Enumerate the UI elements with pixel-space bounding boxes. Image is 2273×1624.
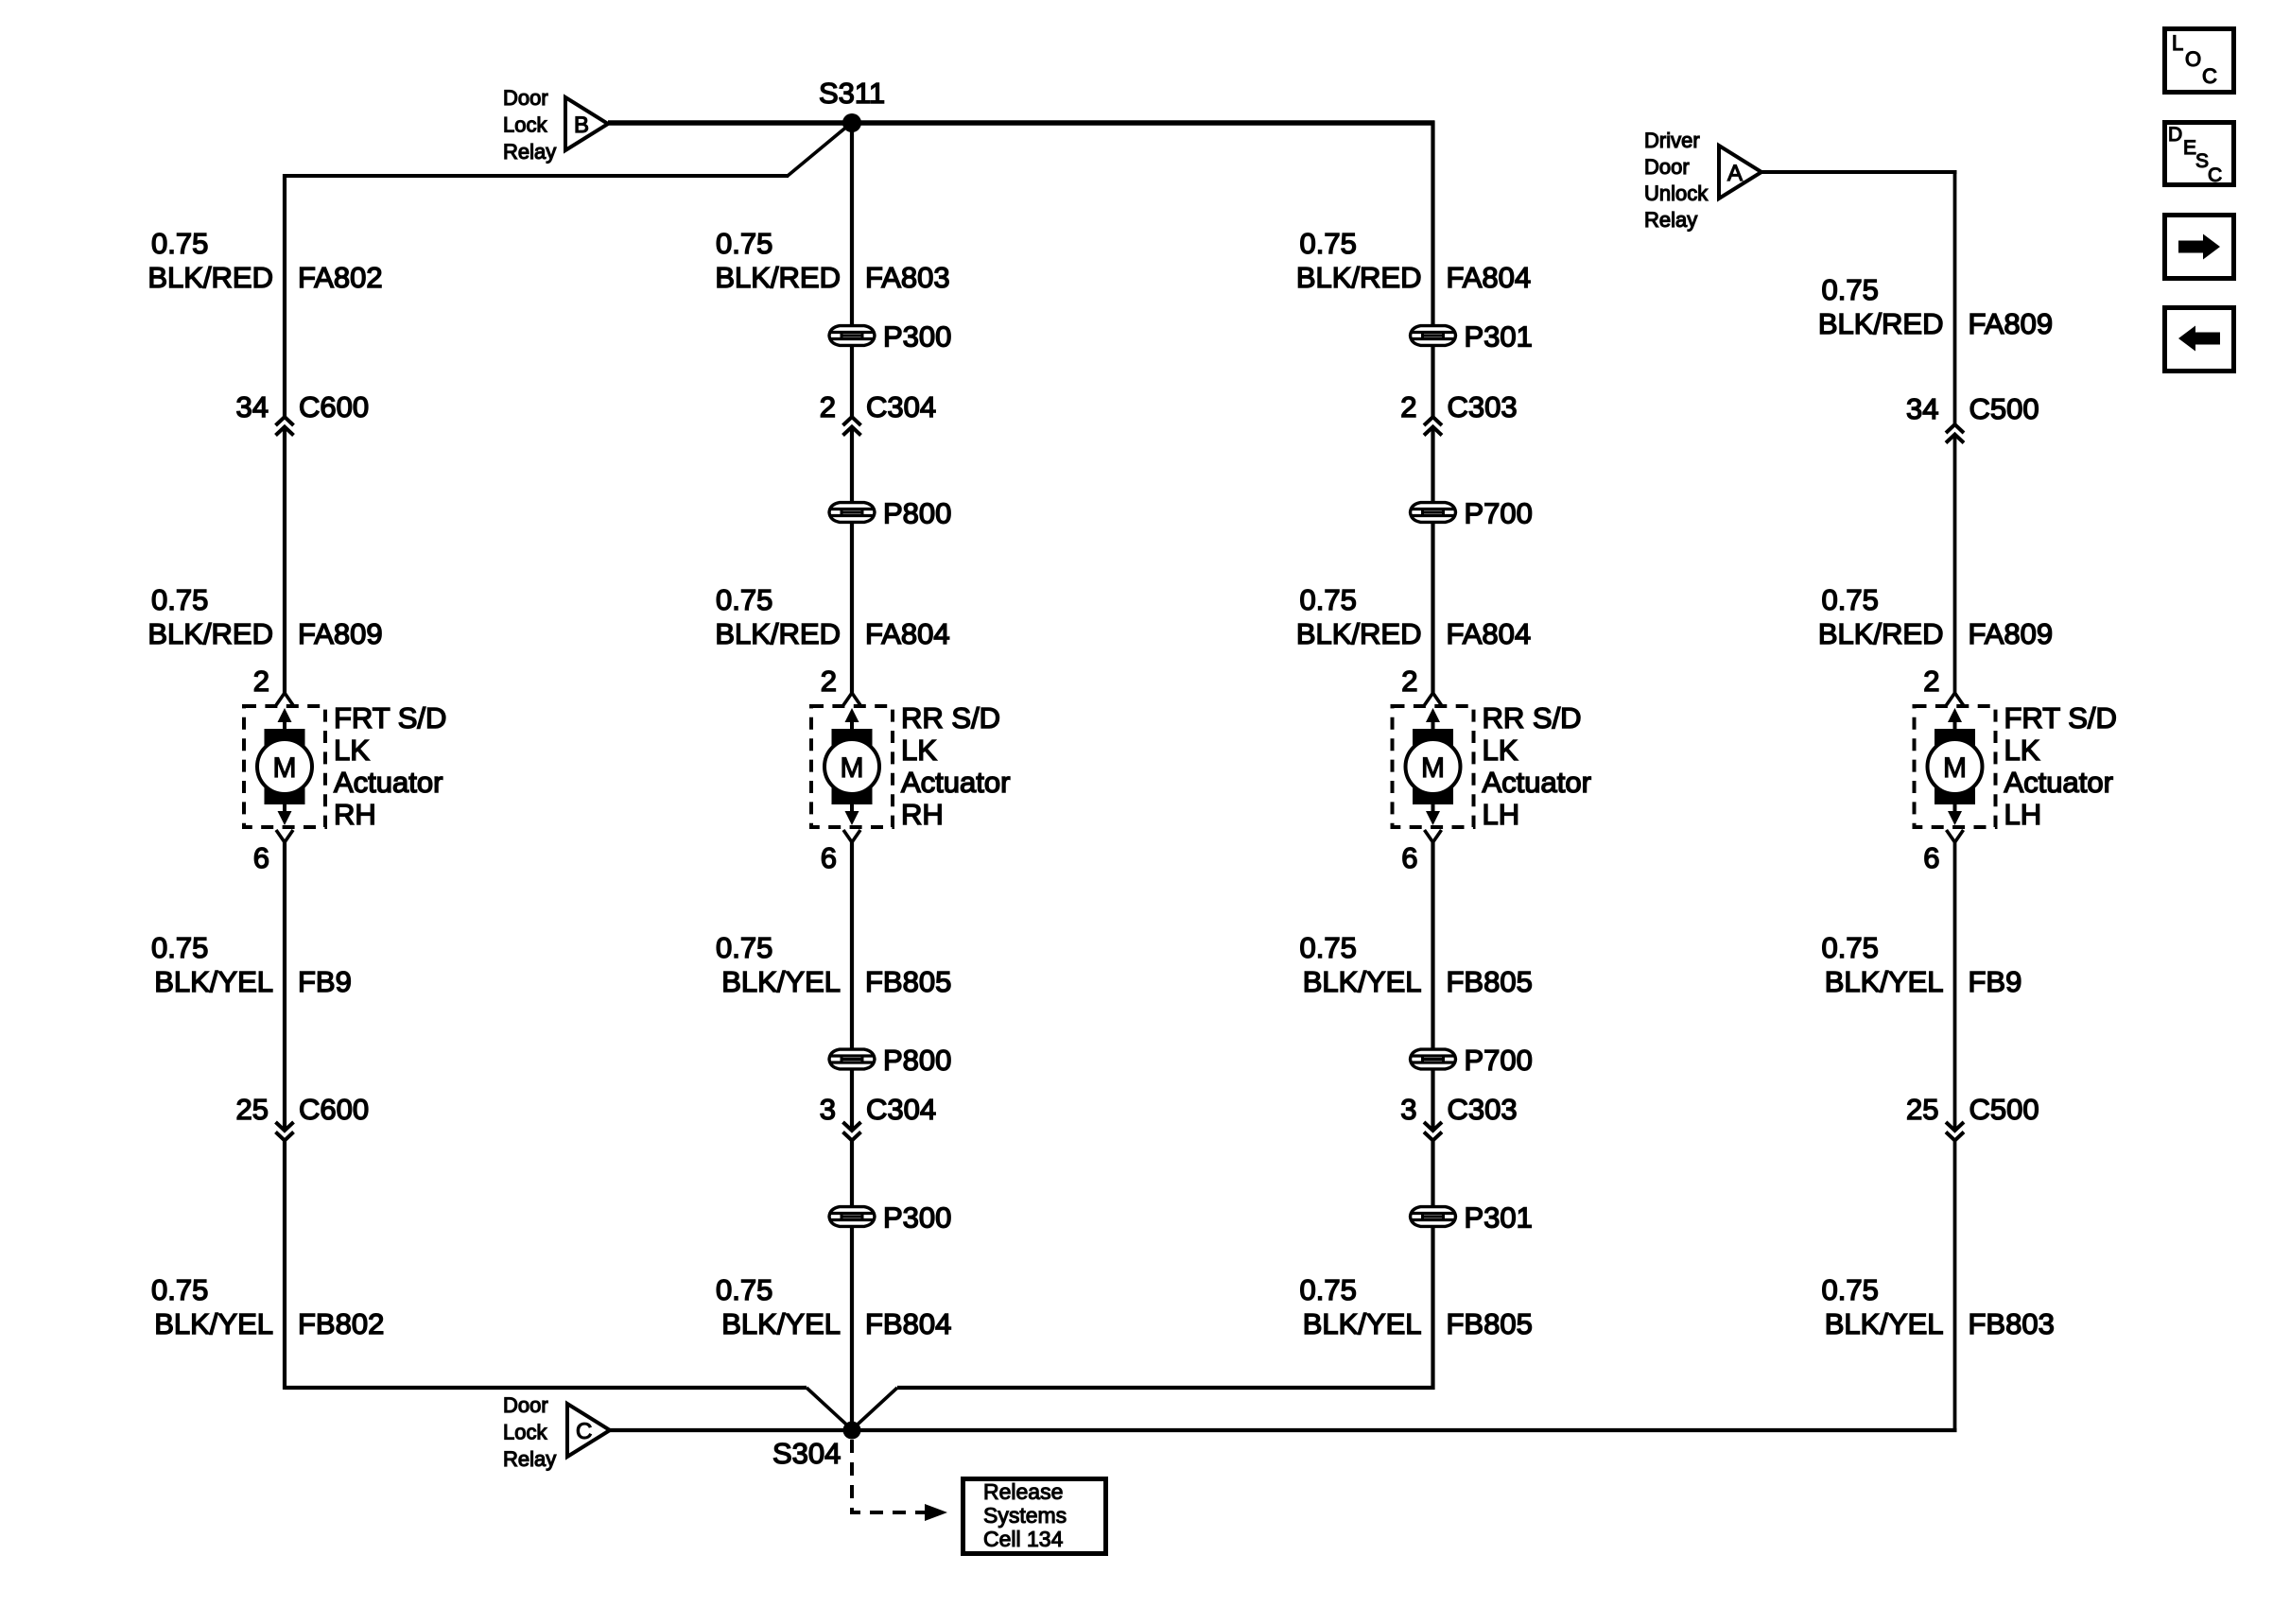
motor M2 RR S/D LK Actuator RH <box>811 693 893 842</box>
svg-text:Relay: Relay <box>1644 208 1697 232</box>
svg-text:2: 2 <box>253 665 269 698</box>
connector break C304 bottom (col2) <box>843 1122 861 1141</box>
svg-text:0.75: 0.75 <box>1822 273 1879 306</box>
wire FA804 column 3 mid <box>1431 523 1434 693</box>
svg-text:FB805: FB805 <box>1447 965 1533 998</box>
svg-text:BLK/YEL: BLK/YEL <box>1825 1307 1944 1340</box>
wire FA804 column 3 upper <box>1431 121 1434 325</box>
wire FB803 column 4 lower <box>1953 1141 1957 1432</box>
wire: from A to column 4 corner <box>1761 170 1957 174</box>
svg-text:FA809: FA809 <box>1969 617 2054 650</box>
svg-text:0.75: 0.75 <box>716 227 772 260</box>
wire segment col2 <box>850 428 854 502</box>
connector break C303 bottom (col3) <box>1424 1122 1442 1141</box>
svg-text:RR S/D: RR S/D <box>1483 701 1582 734</box>
connector break C303 top (col3) <box>1424 417 1442 436</box>
legend box left-arrow <box>2165 308 2234 371</box>
wire FB9 column 4 <box>1953 842 1957 1131</box>
svg-text:L: L <box>2172 31 2183 55</box>
motor M1 FRT S/D LK Actuator RH <box>244 693 325 842</box>
svg-text:3: 3 <box>1400 1093 1416 1126</box>
svg-text:FA802: FA802 <box>298 261 383 294</box>
svg-text:Release: Release <box>983 1479 1063 1504</box>
svg-text:BLK/YEL: BLK/YEL <box>1825 965 1944 998</box>
legend box right-arrow <box>2165 216 2234 279</box>
svg-text:LH: LH <box>1483 798 1520 831</box>
node S304 junction dot <box>843 1422 861 1440</box>
legend box DESC <box>2165 123 2234 185</box>
svg-text:FB9: FB9 <box>1969 965 2022 998</box>
svg-text:P300: P300 <box>883 320 951 354</box>
svg-text:C304: C304 <box>866 390 936 423</box>
inline connector P301 <box>1411 326 1456 346</box>
svg-text:2: 2 <box>1400 390 1416 423</box>
svg-text:0.75: 0.75 <box>151 583 208 616</box>
svg-text:O: O <box>2185 47 2201 71</box>
wire: top bus from B to column 3 corner <box>608 120 1435 126</box>
svg-text:25: 25 <box>236 1093 269 1126</box>
svg-text:BLK/YEL: BLK/YEL <box>154 1307 273 1340</box>
svg-text:C: C <box>576 1419 592 1444</box>
svg-text:Door: Door <box>503 86 548 110</box>
svg-text:Systems: Systems <box>983 1503 1067 1528</box>
svg-text:0.75: 0.75 <box>1300 931 1357 964</box>
svg-text:Lock: Lock <box>503 113 547 137</box>
svg-text:34: 34 <box>236 390 269 423</box>
svg-text:BLK/RED: BLK/RED <box>147 617 273 650</box>
wire: bottom line C to column 4 <box>610 1428 1957 1432</box>
svg-text:E: E <box>2183 137 2196 159</box>
svg-text:Lock: Lock <box>503 1421 547 1444</box>
wire bottom bus right (col3 to S304) <box>897 1386 1435 1390</box>
wire FA809 column 4 mid <box>1953 436 1957 693</box>
svg-text:C600: C600 <box>299 1093 369 1126</box>
svg-text:6: 6 <box>253 841 269 874</box>
svg-text:FRT S/D: FRT S/D <box>334 701 446 734</box>
svg-text:BLK/YEL: BLK/YEL <box>721 1307 841 1340</box>
svg-text:LK: LK <box>2004 734 2040 767</box>
svg-text:FA804: FA804 <box>865 617 950 650</box>
svg-text:BLK/YEL: BLK/YEL <box>154 965 273 998</box>
svg-text:0.75: 0.75 <box>1300 1273 1357 1306</box>
svg-text:2: 2 <box>1923 665 1939 698</box>
svg-text:Cell 134: Cell 134 <box>983 1527 1064 1551</box>
motor M4 FRT S/D LK Actuator LH <box>1915 693 1996 842</box>
svg-text:0.75: 0.75 <box>716 583 772 616</box>
svg-text:FB802: FB802 <box>298 1307 384 1340</box>
svg-text:Actuator: Actuator <box>1483 766 1591 799</box>
wire FB9 column 1 <box>283 842 286 1131</box>
svg-text:FB805: FB805 <box>1447 1307 1533 1340</box>
svg-text:P300: P300 <box>883 1201 951 1235</box>
wire segment col2 <box>850 1069 854 1131</box>
svg-text:0.75: 0.75 <box>1300 227 1357 260</box>
inline connector P300 <box>829 326 875 346</box>
svg-text:BLK/YEL: BLK/YEL <box>721 965 841 998</box>
svg-text:P800: P800 <box>883 1044 951 1077</box>
svg-text:C303: C303 <box>1448 390 1518 423</box>
svg-text:C500: C500 <box>1969 392 2039 425</box>
wire segment col3 <box>1431 1141 1434 1206</box>
wire FA803 column 2 upper <box>850 123 854 325</box>
connector break C500 top (col4) <box>1946 424 1964 443</box>
inline connector P700 <box>1411 503 1456 523</box>
svg-text:C304: C304 <box>866 1093 936 1126</box>
svg-text:BLK/RED: BLK/RED <box>1818 307 1944 340</box>
svg-text:Relay: Relay <box>503 140 556 164</box>
inline connector P301 <box>1411 1207 1456 1227</box>
svg-text:2: 2 <box>820 390 836 423</box>
svg-text:0.75: 0.75 <box>1822 931 1879 964</box>
svg-text:S311: S311 <box>819 77 885 110</box>
connector break C500 bottom (col4) <box>1946 1122 1964 1141</box>
svg-text:S: S <box>2195 150 2209 172</box>
svg-text:Relay: Relay <box>503 1447 556 1471</box>
wire FB805 column 2 <box>850 842 854 1049</box>
off-page triangle A (Driver Door Unlock Relay) <box>1719 146 1761 199</box>
svg-text:P301: P301 <box>1465 320 1533 354</box>
svg-text:FB803: FB803 <box>1969 1307 2055 1340</box>
svg-text:C: C <box>2202 64 2217 88</box>
svg-text:BLK/YEL: BLK/YEL <box>1303 1307 1422 1340</box>
inline connector P300 <box>829 1207 875 1227</box>
svg-text:P800: P800 <box>883 497 951 530</box>
svg-text:C600: C600 <box>299 390 369 423</box>
wire segment col3 <box>1431 428 1434 502</box>
svg-text:RH: RH <box>901 798 944 831</box>
svg-text:BLK/RED: BLK/RED <box>1296 261 1422 294</box>
svg-text:C500: C500 <box>1969 1093 2039 1126</box>
svg-text:D: D <box>2168 124 2182 146</box>
svg-text:C303: C303 <box>1448 1093 1518 1126</box>
legend box LOC <box>2165 29 2234 93</box>
svg-text:Actuator: Actuator <box>901 766 1010 799</box>
wire segment col3 <box>1431 1069 1434 1131</box>
svg-text:6: 6 <box>1923 841 1939 874</box>
svg-text:BLK/YEL: BLK/YEL <box>1303 965 1422 998</box>
svg-text:FA809: FA809 <box>1969 307 2054 340</box>
svg-text:FB9: FB9 <box>298 965 352 998</box>
svg-text:0.75: 0.75 <box>716 1273 772 1306</box>
svg-text:LK: LK <box>1483 734 1518 767</box>
svg-text:Door: Door <box>1644 155 1690 179</box>
svg-text:Actuator: Actuator <box>334 766 442 799</box>
wire segment col3 <box>1431 346 1434 417</box>
svg-text:B: B <box>574 112 589 138</box>
dashed wire from S304 to Release Systems <box>852 1440 925 1512</box>
svg-text:LH: LH <box>2004 798 2042 831</box>
svg-text:FB805: FB805 <box>865 965 951 998</box>
svg-text:6: 6 <box>821 841 837 874</box>
reference box Release Systems Cell 134 <box>963 1479 1106 1554</box>
wire FA802 column 1 upper <box>283 174 286 417</box>
svg-text:0.75: 0.75 <box>151 1273 208 1306</box>
svg-text:LK: LK <box>334 734 370 767</box>
svg-text:0.75: 0.75 <box>716 931 772 964</box>
inline connector P700 <box>1411 1049 1456 1069</box>
wire segment col2 <box>850 1141 854 1206</box>
wire FA804 column 2 <box>850 523 854 693</box>
svg-text:2: 2 <box>821 665 837 698</box>
svg-text:C: C <box>2208 164 2222 186</box>
wire bottom bus left (col1 to S304) <box>285 1386 807 1390</box>
svg-text:RR S/D: RR S/D <box>901 701 1000 734</box>
node S311 junction dot <box>842 113 861 132</box>
svg-text:BLK/RED: BLK/RED <box>1818 617 1944 650</box>
svg-text:6: 6 <box>1401 841 1417 874</box>
svg-text:Unlock: Unlock <box>1644 181 1709 205</box>
svg-text:RH: RH <box>334 798 376 831</box>
svg-text:0.75: 0.75 <box>151 227 208 260</box>
connector break C600 top (col1) <box>276 417 294 436</box>
wire FB802 column 1 lower <box>283 1141 286 1390</box>
svg-text:FA804: FA804 <box>1447 261 1532 294</box>
svg-text:A: A <box>1727 161 1743 186</box>
svg-text:BLK/RED: BLK/RED <box>1296 617 1422 650</box>
inline connector P800 <box>829 503 875 523</box>
svg-text:0.75: 0.75 <box>1822 1273 1879 1306</box>
wire FA809 column 1 <box>283 428 286 693</box>
motor M3 RR S/D LK Actuator LH <box>1393 693 1474 842</box>
svg-text:34: 34 <box>1906 392 1938 425</box>
svg-text:FA804: FA804 <box>1447 617 1532 650</box>
wire FB805 column 3 <box>1431 842 1434 1049</box>
wire FB805 column 3 lower <box>1431 1227 1434 1390</box>
svg-text:25: 25 <box>1906 1093 1938 1126</box>
off-page triangle B (Door Lock Relay) <box>565 97 608 150</box>
svg-text:Driver: Driver <box>1644 129 1700 152</box>
wire FB804 column 2 lower <box>850 1227 854 1430</box>
svg-text:0.75: 0.75 <box>1822 583 1879 616</box>
svg-text:0.75: 0.75 <box>1300 583 1357 616</box>
svg-text:P700: P700 <box>1465 497 1533 530</box>
inline connector P800 <box>829 1049 875 1069</box>
svg-text:LK: LK <box>901 734 937 767</box>
off-page triangle C (Door Lock Relay) <box>567 1404 610 1457</box>
svg-text:Actuator: Actuator <box>2004 766 2113 799</box>
connector break C304 top (col2) <box>843 417 861 436</box>
wire: branch from S311 to column 1 (diagonal + horizontal) <box>788 125 849 176</box>
wire segment col2 <box>850 346 854 417</box>
svg-text:3: 3 <box>820 1093 836 1126</box>
svg-text:BLK/RED: BLK/RED <box>715 261 841 294</box>
connector break C600 bottom (col1) <box>276 1122 294 1141</box>
svg-text:Door: Door <box>503 1393 548 1417</box>
svg-text:S304: S304 <box>772 1437 841 1470</box>
svg-text:BLK/RED: BLK/RED <box>147 261 273 294</box>
svg-text:BLK/RED: BLK/RED <box>715 617 841 650</box>
svg-text:P700: P700 <box>1465 1044 1533 1077</box>
svg-text:FA803: FA803 <box>865 261 950 294</box>
wire FA809 column 4 upper <box>1953 172 1957 424</box>
svg-text:0.75: 0.75 <box>151 931 208 964</box>
svg-text:FA809: FA809 <box>298 617 383 650</box>
svg-text:P301: P301 <box>1465 1201 1533 1235</box>
svg-text:2: 2 <box>1401 665 1417 698</box>
svg-text:FB804: FB804 <box>865 1307 951 1340</box>
svg-text:FRT S/D: FRT S/D <box>2004 701 2117 734</box>
